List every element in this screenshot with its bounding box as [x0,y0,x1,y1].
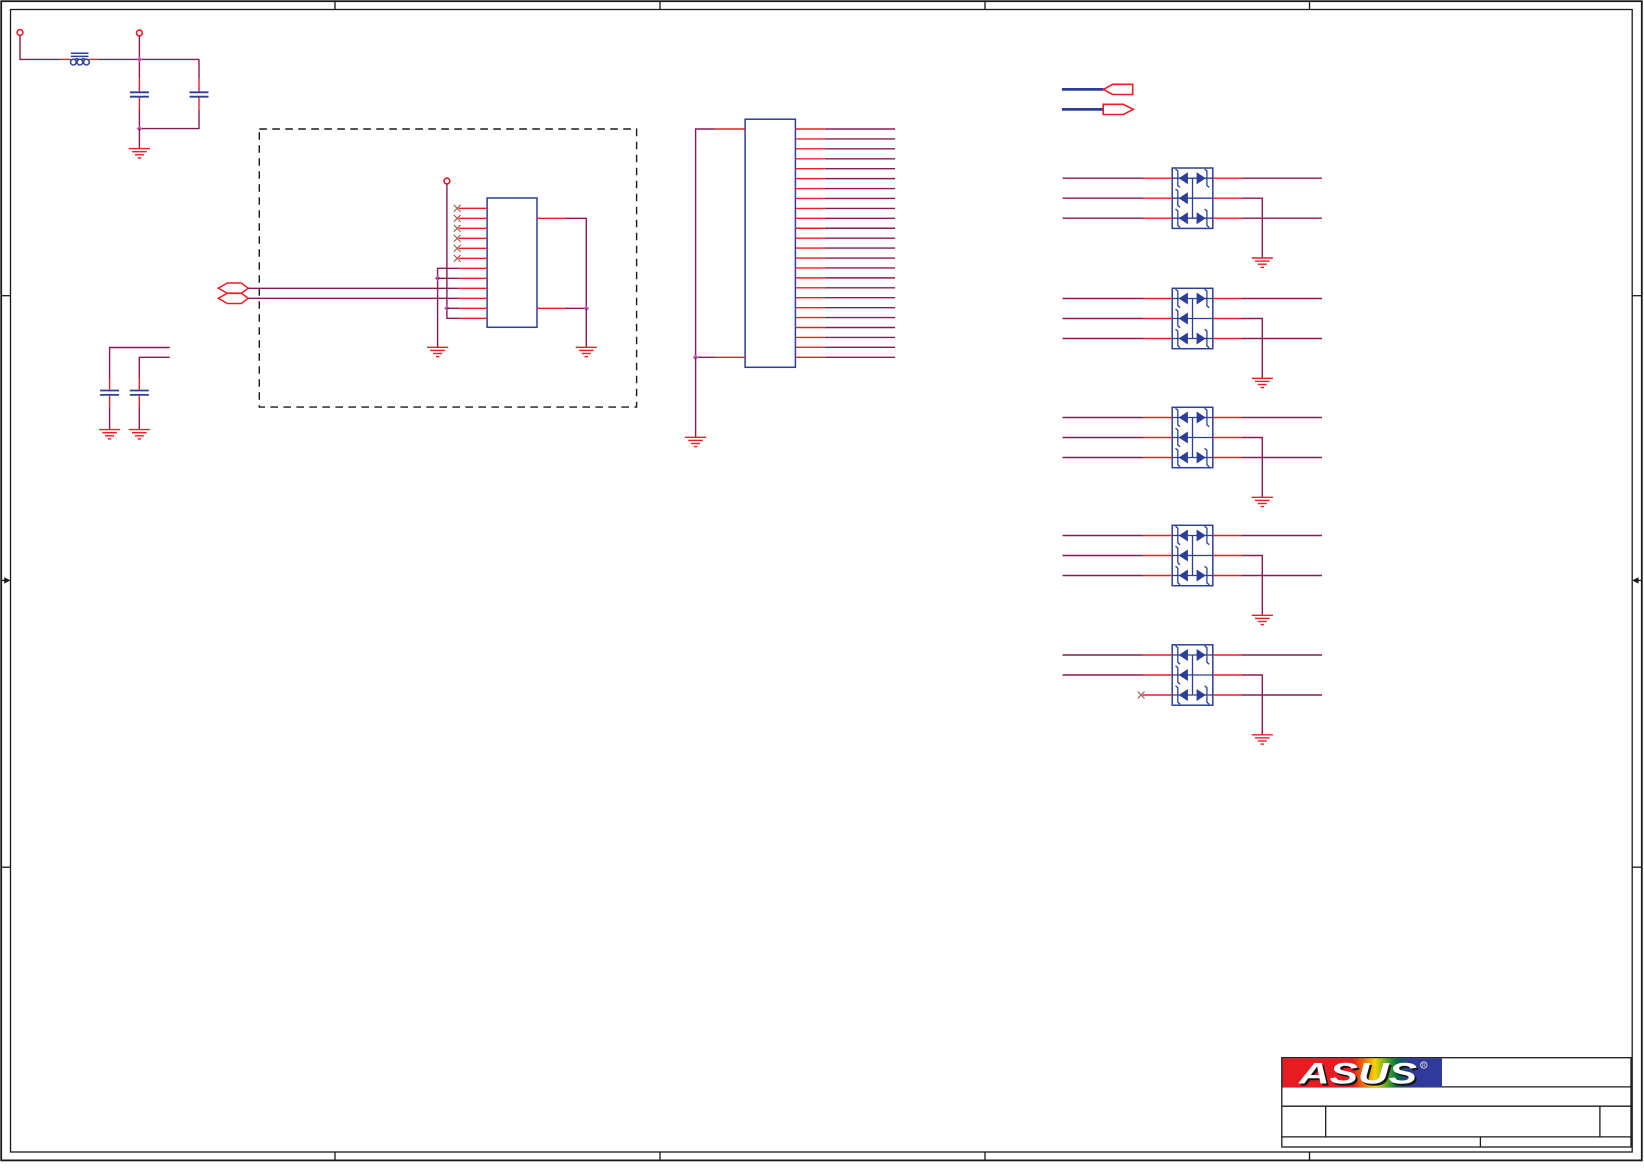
wire [138,129,140,149]
J1 pin 16 [795,277,824,279]
wire [1143,177,1172,179]
wire [1213,417,1242,419]
wire [198,59,200,78]
U1 pin 4 [459,237,487,239]
wire [447,184,459,318]
esd diode array D3 [1172,407,1213,467]
wire [1213,694,1242,696]
wire [1242,694,1322,696]
capacitor C4 [130,391,149,395]
J1 pin 14 [795,257,824,259]
node junction [584,306,590,312]
ground [427,347,448,356]
J1 pin 1 [795,128,824,130]
wire [1143,338,1172,340]
wire [1242,177,1322,179]
J1 pin 10 [795,217,824,219]
wire [825,188,895,190]
wire [825,237,895,239]
wire [1242,217,1322,219]
J1 pin 17 [795,287,824,289]
wire [1143,457,1172,459]
no-connect X [454,205,461,212]
wire [1213,575,1242,577]
wire [1143,694,1173,696]
wire [1213,298,1242,300]
wire [1213,197,1242,199]
J1 pin 21 [795,327,824,329]
port P2 (output) [1062,104,1133,114]
J1 pin 19 [795,307,824,309]
wire [566,218,587,308]
ground [99,430,120,439]
J1 pin 6 [795,178,824,180]
wire [1242,319,1262,379]
ground [576,347,597,356]
wire [20,36,60,60]
J1 pin 3 [795,148,824,150]
wire [825,247,895,249]
wire [1063,654,1144,656]
wire [1143,417,1172,419]
wire [1213,535,1242,537]
wire [1063,318,1144,320]
wire [696,356,715,358]
no-connect X [454,225,461,232]
J1 pin 7 [795,188,824,190]
wire [1242,338,1322,340]
wire [248,287,459,289]
wire [825,148,895,150]
wire [109,378,111,390]
J1 pin 22 [795,336,824,338]
wire [1063,417,1144,419]
wire [825,227,895,229]
wire [1143,575,1172,577]
wire [1063,437,1144,439]
wire [138,407,140,430]
wire [1143,654,1172,656]
wire [1063,575,1144,577]
no-connect X [454,255,461,262]
wire [1143,555,1172,557]
wire [825,128,895,130]
wire [138,378,140,390]
wire [1213,338,1242,340]
wire [825,217,895,219]
U1 pin 9 [459,287,487,289]
wire [1143,197,1172,199]
J1 pin 20 [795,317,824,319]
J1 pin 18 [795,297,824,299]
wire [1213,217,1242,219]
J1 pin 11 [795,227,824,229]
wire [585,308,587,347]
wire [138,78,140,92]
wire [1242,556,1262,616]
wire [1063,674,1144,676]
capacitor C2 [190,92,209,96]
U1 pin 2 [459,217,487,219]
U1 pin 6 [459,257,487,259]
off-page connector port H1 [218,283,248,293]
wire [825,356,895,358]
wire [825,307,895,309]
wire [438,277,459,279]
J1 pin 23 [795,346,824,348]
wire [1143,217,1172,219]
node junction [435,276,441,282]
off-page connector port H2 [218,293,248,303]
wire [1242,675,1262,735]
U1 pin 14 [537,307,566,309]
wire [1063,177,1144,179]
inductor L1 [71,53,90,65]
ic U1 [487,198,537,327]
U1 pin 1 [459,207,487,209]
wire [1242,457,1322,459]
wire [1213,318,1242,320]
wire [566,307,587,309]
J1 pin left-top [715,128,745,130]
capacitor C1 [130,92,149,96]
wire [1242,535,1322,537]
connector J1 [745,119,795,367]
U1 pin 13 [537,217,566,219]
wire [1063,535,1144,537]
wire [1242,438,1262,498]
wire [1242,575,1322,577]
dashed enclosure box [259,129,636,407]
no-connect X [454,245,461,252]
J1 pin 15 [795,267,824,269]
wire [109,396,111,407]
wire [1242,417,1322,419]
wire [1213,457,1242,459]
svg-text:R: R [1422,1063,1426,1069]
wire [1213,177,1242,179]
wire [1063,217,1144,219]
wire [825,197,895,199]
no-connect X [1138,692,1145,699]
U1 pin 8 [459,277,487,279]
wire [825,207,895,209]
wire [825,327,895,329]
J1 pin left-bottom [715,356,745,358]
capacitor C3 [100,391,119,395]
wire [1213,674,1242,676]
U1 pin 11 [459,307,487,309]
wire [60,58,71,60]
wire [109,407,111,430]
no-connect X [454,215,461,222]
U1 pin 10 [459,297,487,299]
esd diode array D4 [1172,525,1213,585]
node junction [137,57,143,63]
wire [447,307,459,309]
port P1 (input) [1062,84,1133,94]
wire [1213,437,1242,439]
wire [1063,298,1144,300]
wire [825,257,895,259]
ground [1252,497,1273,506]
esd diode array D5 [1172,645,1213,705]
wire [1143,298,1172,300]
terminal J-C [444,178,450,184]
ground [129,430,150,439]
J1 pin 12 [795,237,824,239]
J1 pin 9 [795,207,824,209]
wire [138,97,140,110]
wire [1063,555,1144,557]
wire [1213,555,1242,557]
wire [1242,298,1322,300]
ASUS logo [1283,1058,1443,1093]
wire [825,267,895,269]
esd diode array D1 [1172,168,1213,228]
ground [1252,735,1273,744]
wire [139,357,170,378]
wire [825,138,895,140]
wire [1063,197,1144,199]
no-connect X [454,235,461,242]
wire [825,297,895,299]
ground [1252,258,1273,267]
wire [89,58,100,60]
ground [685,437,706,446]
wire [1063,338,1144,340]
wire [825,287,895,289]
U1 pin 3 [459,227,487,229]
wire [1242,198,1262,258]
ground [1252,378,1273,387]
ground [129,149,150,158]
wire [825,277,895,279]
terminal J-A [17,30,23,36]
terminal J-B [137,30,143,36]
J1 pin 5 [795,168,824,170]
wire [248,297,459,299]
wire [1063,457,1144,459]
node junction [444,306,450,312]
wire [825,346,895,348]
wire [1143,318,1172,320]
esd diode array D2 [1172,288,1213,348]
J1 pin 24 [795,356,824,358]
wire [695,357,697,437]
wire [438,268,459,347]
wire [825,336,895,338]
wire [138,110,140,129]
node junction [137,126,143,132]
wire [138,396,140,407]
U1 pin 5 [459,247,487,249]
wire [696,129,715,357]
wire [825,158,895,160]
wire [825,178,895,180]
U1 pin 7 [459,267,487,269]
wire [825,168,895,170]
J1 pin 13 [795,247,824,249]
wire [110,348,170,379]
wire [198,97,200,110]
wire [138,36,140,78]
J1 pin 2 [795,138,824,140]
svg-text:ASUS: ASUS [1298,1058,1417,1091]
wire [1143,674,1172,676]
wire [1143,535,1172,537]
node junction [693,355,699,361]
J1 pin 8 [795,197,824,199]
wire [99,58,199,60]
wire [1242,654,1322,656]
title block frame [1282,1058,1631,1147]
wire [825,317,895,319]
wire [1213,654,1242,656]
wire [139,110,199,129]
ground [1252,615,1273,624]
wire [1143,437,1172,439]
U1 pin 12 [459,317,487,319]
J1 pin 4 [795,158,824,160]
